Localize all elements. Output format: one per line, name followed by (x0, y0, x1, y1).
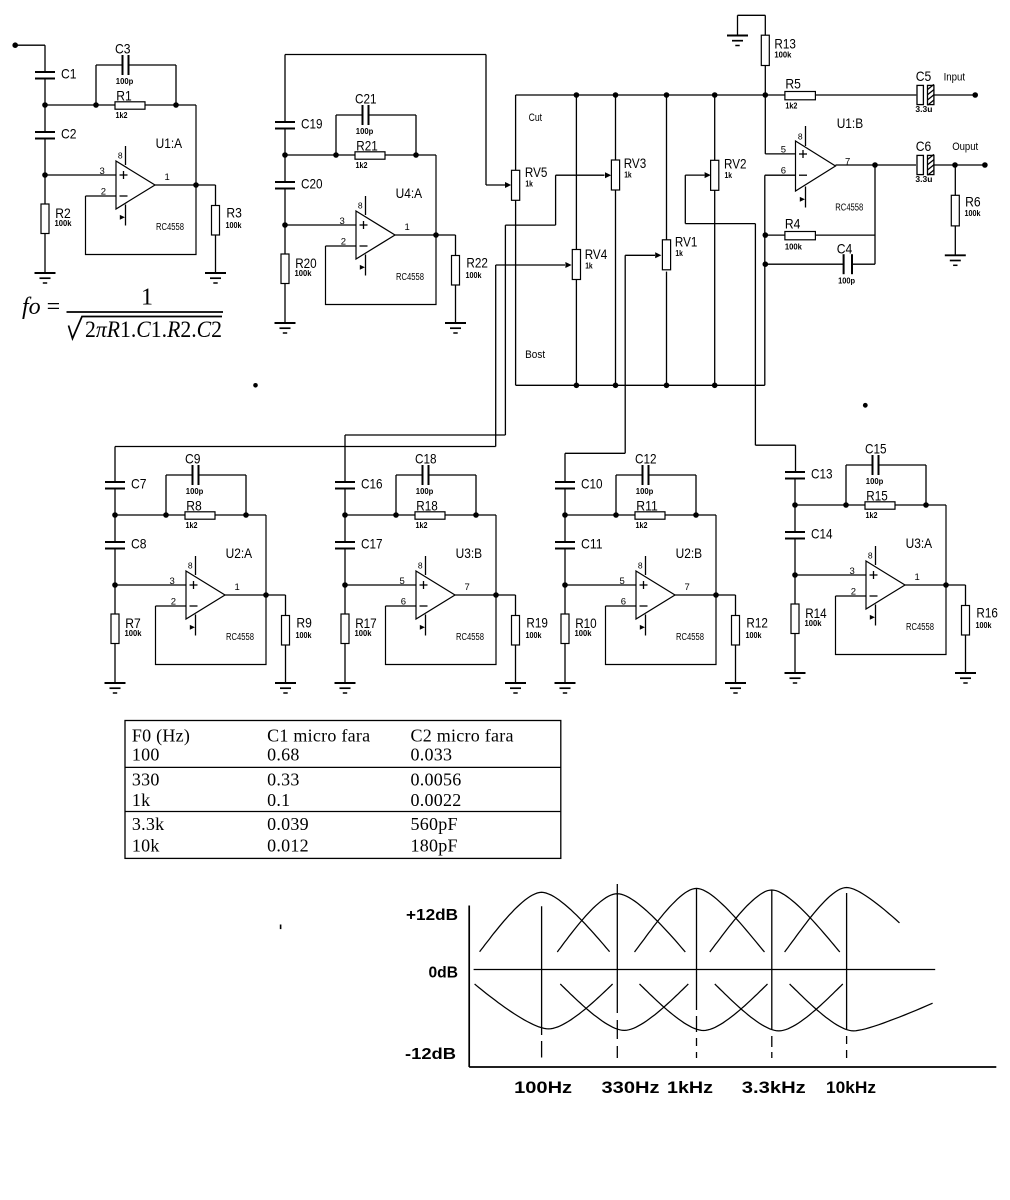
svg-text:+12dB: +12dB (406, 907, 458, 924)
svg-text:C9: C9 (185, 451, 201, 467)
svg-text:100k: 100k (575, 628, 592, 638)
svg-text:Ouput: Ouput (952, 141, 978, 153)
svg-text:1k: 1k (585, 261, 593, 271)
svg-text:C19: C19 (301, 116, 323, 132)
svg-text:R16: R16 (976, 605, 998, 621)
svg-text:U2:B: U2:B (676, 545, 703, 561)
svg-text:1k: 1k (525, 179, 533, 189)
svg-text:100k: 100k (296, 630, 312, 640)
svg-text:U3:A: U3:A (906, 535, 933, 551)
svg-text:10k: 10k (132, 836, 160, 856)
svg-text:C6: C6 (916, 138, 932, 154)
svg-text:3: 3 (850, 566, 855, 577)
svg-text:R12: R12 (746, 615, 768, 631)
svg-text:0.033: 0.033 (411, 745, 453, 765)
svg-text:U4:A: U4:A (396, 185, 423, 201)
svg-text:RC4558: RC4558 (226, 632, 254, 643)
svg-text:RC4558: RC4558 (156, 222, 184, 233)
svg-text:7: 7 (685, 582, 690, 593)
svg-text:C13: C13 (811, 466, 833, 482)
svg-text:330: 330 (132, 770, 160, 790)
svg-text:7: 7 (845, 156, 850, 167)
svg-text:1k: 1k (675, 248, 683, 258)
svg-text:100k: 100k (295, 268, 312, 278)
svg-text:C5: C5 (916, 68, 932, 84)
svg-text:1k: 1k (132, 790, 151, 810)
svg-text:C16: C16 (361, 476, 383, 492)
svg-text:1k: 1k (624, 170, 632, 180)
svg-text:1k2: 1k2 (116, 110, 128, 120)
svg-text:560pF: 560pF (411, 814, 458, 834)
svg-text:C14: C14 (811, 526, 833, 542)
svg-text:R1: R1 (116, 87, 132, 103)
svg-text:RC4558: RC4558 (396, 272, 424, 283)
svg-text:100p: 100p (116, 76, 134, 86)
svg-text:fo =: fo = (22, 294, 60, 320)
svg-text:100k: 100k (125, 628, 142, 638)
svg-text:8: 8 (418, 560, 423, 570)
svg-text:3: 3 (100, 166, 105, 177)
svg-text:RC4558: RC4558 (835, 203, 863, 214)
svg-text:-12dB: -12dB (405, 1046, 456, 1063)
svg-text:C10: C10 (581, 476, 603, 492)
svg-text:3: 3 (170, 576, 175, 587)
svg-text:1: 1 (915, 572, 920, 583)
svg-text:C11: C11 (581, 536, 603, 552)
svg-text:C7: C7 (131, 476, 147, 492)
svg-text:3.3u: 3.3u (915, 104, 932, 114)
svg-text:0.012: 0.012 (267, 836, 309, 856)
svg-text:R4: R4 (785, 216, 801, 232)
svg-text:0.039: 0.039 (267, 814, 309, 834)
svg-text:Bost: Bost (525, 349, 545, 361)
svg-text:100k: 100k (746, 630, 762, 640)
svg-text:2: 2 (101, 186, 106, 197)
svg-text:U1:A: U1:A (156, 135, 183, 151)
svg-text:C12: C12 (635, 451, 657, 467)
svg-text:R19: R19 (526, 615, 548, 631)
svg-text:2πR1.C1.R2.C2: 2πR1.C1.R2.C2 (85, 317, 222, 342)
svg-text:100k: 100k (785, 242, 802, 252)
svg-text:Input: Input (944, 71, 966, 83)
svg-text:R3: R3 (226, 205, 242, 221)
svg-text:8: 8 (358, 200, 363, 210)
svg-text:0.1: 0.1 (267, 790, 290, 810)
svg-text:1: 1 (141, 285, 153, 311)
svg-text:100p: 100p (416, 486, 434, 496)
svg-text:330Hz: 330Hz (602, 1078, 660, 1097)
svg-text:R5: R5 (785, 76, 801, 92)
svg-text:100p: 100p (186, 486, 204, 496)
svg-text:R18: R18 (416, 497, 438, 513)
svg-text:R15: R15 (866, 487, 888, 503)
svg-text:100k: 100k (976, 620, 992, 630)
svg-text:0.33: 0.33 (267, 770, 300, 790)
svg-text:7: 7 (465, 582, 470, 593)
svg-text:2: 2 (341, 236, 346, 247)
svg-text:100: 100 (132, 745, 160, 765)
svg-text:C2 micro fara: C2 micro fara (411, 725, 514, 745)
svg-text:3: 3 (340, 216, 345, 227)
svg-text:0.0022: 0.0022 (411, 790, 462, 810)
svg-text:100p: 100p (838, 275, 855, 285)
svg-text:1k: 1k (725, 170, 733, 180)
svg-text:1: 1 (405, 222, 410, 233)
svg-text:6: 6 (781, 166, 786, 177)
svg-text:C2: C2 (61, 126, 77, 142)
svg-text:R22: R22 (466, 255, 488, 271)
svg-text:100p: 100p (866, 476, 884, 486)
svg-text:1k2: 1k2 (636, 520, 648, 530)
svg-text:100k: 100k (355, 628, 372, 638)
svg-text:100k: 100k (55, 218, 72, 228)
svg-text:10kHz: 10kHz (826, 1078, 876, 1097)
svg-text:U2:A: U2:A (226, 545, 253, 561)
svg-text:8: 8 (118, 150, 123, 160)
svg-text:C20: C20 (301, 176, 323, 192)
svg-text:C8: C8 (131, 536, 147, 552)
svg-text:100k: 100k (965, 208, 981, 218)
svg-text:C17: C17 (361, 536, 383, 552)
svg-text:100k: 100k (226, 220, 242, 230)
svg-text:100p: 100p (636, 486, 654, 496)
svg-text:0.0056: 0.0056 (411, 770, 462, 790)
svg-text:1: 1 (165, 172, 170, 183)
svg-text:1k2: 1k2 (785, 101, 797, 111)
svg-text:8: 8 (798, 131, 803, 141)
svg-text:100k: 100k (774, 50, 791, 60)
svg-text:RC4558: RC4558 (906, 622, 934, 633)
svg-text:6: 6 (401, 596, 406, 607)
svg-text:C15: C15 (865, 441, 887, 457)
svg-text:F0 (Hz): F0 (Hz) (132, 725, 190, 746)
svg-text:0dB: 0dB (429, 964, 459, 981)
svg-text:1: 1 (235, 582, 240, 593)
svg-text:R11: R11 (636, 497, 658, 513)
svg-text:5: 5 (781, 144, 786, 155)
svg-text:5: 5 (400, 576, 405, 587)
svg-text:R8: R8 (186, 497, 202, 513)
svg-text:3.3u: 3.3u (915, 174, 932, 184)
svg-text:RC4558: RC4558 (676, 632, 704, 643)
svg-text:100Hz: 100Hz (514, 1078, 572, 1097)
svg-text:C1: C1 (61, 66, 77, 82)
svg-text:C18: C18 (415, 451, 437, 467)
svg-text:3.3kHz: 3.3kHz (742, 1078, 806, 1097)
svg-text:6: 6 (621, 596, 626, 607)
svg-text:1kHz: 1kHz (667, 1078, 713, 1097)
svg-text:100p: 100p (356, 126, 374, 136)
svg-text:3.3k: 3.3k (132, 814, 165, 834)
svg-text:1k2: 1k2 (186, 520, 198, 530)
svg-text:100k: 100k (526, 630, 542, 640)
svg-text:1k2: 1k2 (356, 160, 368, 170)
svg-text:C3: C3 (115, 41, 131, 57)
svg-text:C4: C4 (837, 241, 853, 257)
svg-text:8: 8 (638, 560, 643, 570)
svg-text:5: 5 (620, 576, 625, 587)
svg-text:100k: 100k (805, 618, 822, 628)
svg-text:180pF: 180pF (411, 836, 458, 856)
svg-text:2: 2 (171, 596, 176, 607)
svg-text:0.68: 0.68 (267, 745, 300, 765)
svg-text:RC4558: RC4558 (456, 632, 484, 643)
svg-text:100k: 100k (466, 270, 482, 280)
svg-text:R21: R21 (356, 137, 378, 153)
svg-text:Cut: Cut (529, 112, 543, 124)
svg-text:1k2: 1k2 (416, 520, 428, 530)
svg-text:8: 8 (868, 550, 873, 560)
svg-text:C1 micro fara: C1 micro fara (267, 725, 370, 745)
svg-text:R9: R9 (296, 615, 312, 631)
svg-text:1k2: 1k2 (866, 510, 878, 520)
svg-text:U3:B: U3:B (456, 545, 483, 561)
svg-text:8: 8 (188, 560, 193, 570)
svg-text:C21: C21 (355, 91, 377, 107)
svg-text:2: 2 (851, 586, 856, 597)
svg-text:U1:B: U1:B (837, 115, 864, 131)
